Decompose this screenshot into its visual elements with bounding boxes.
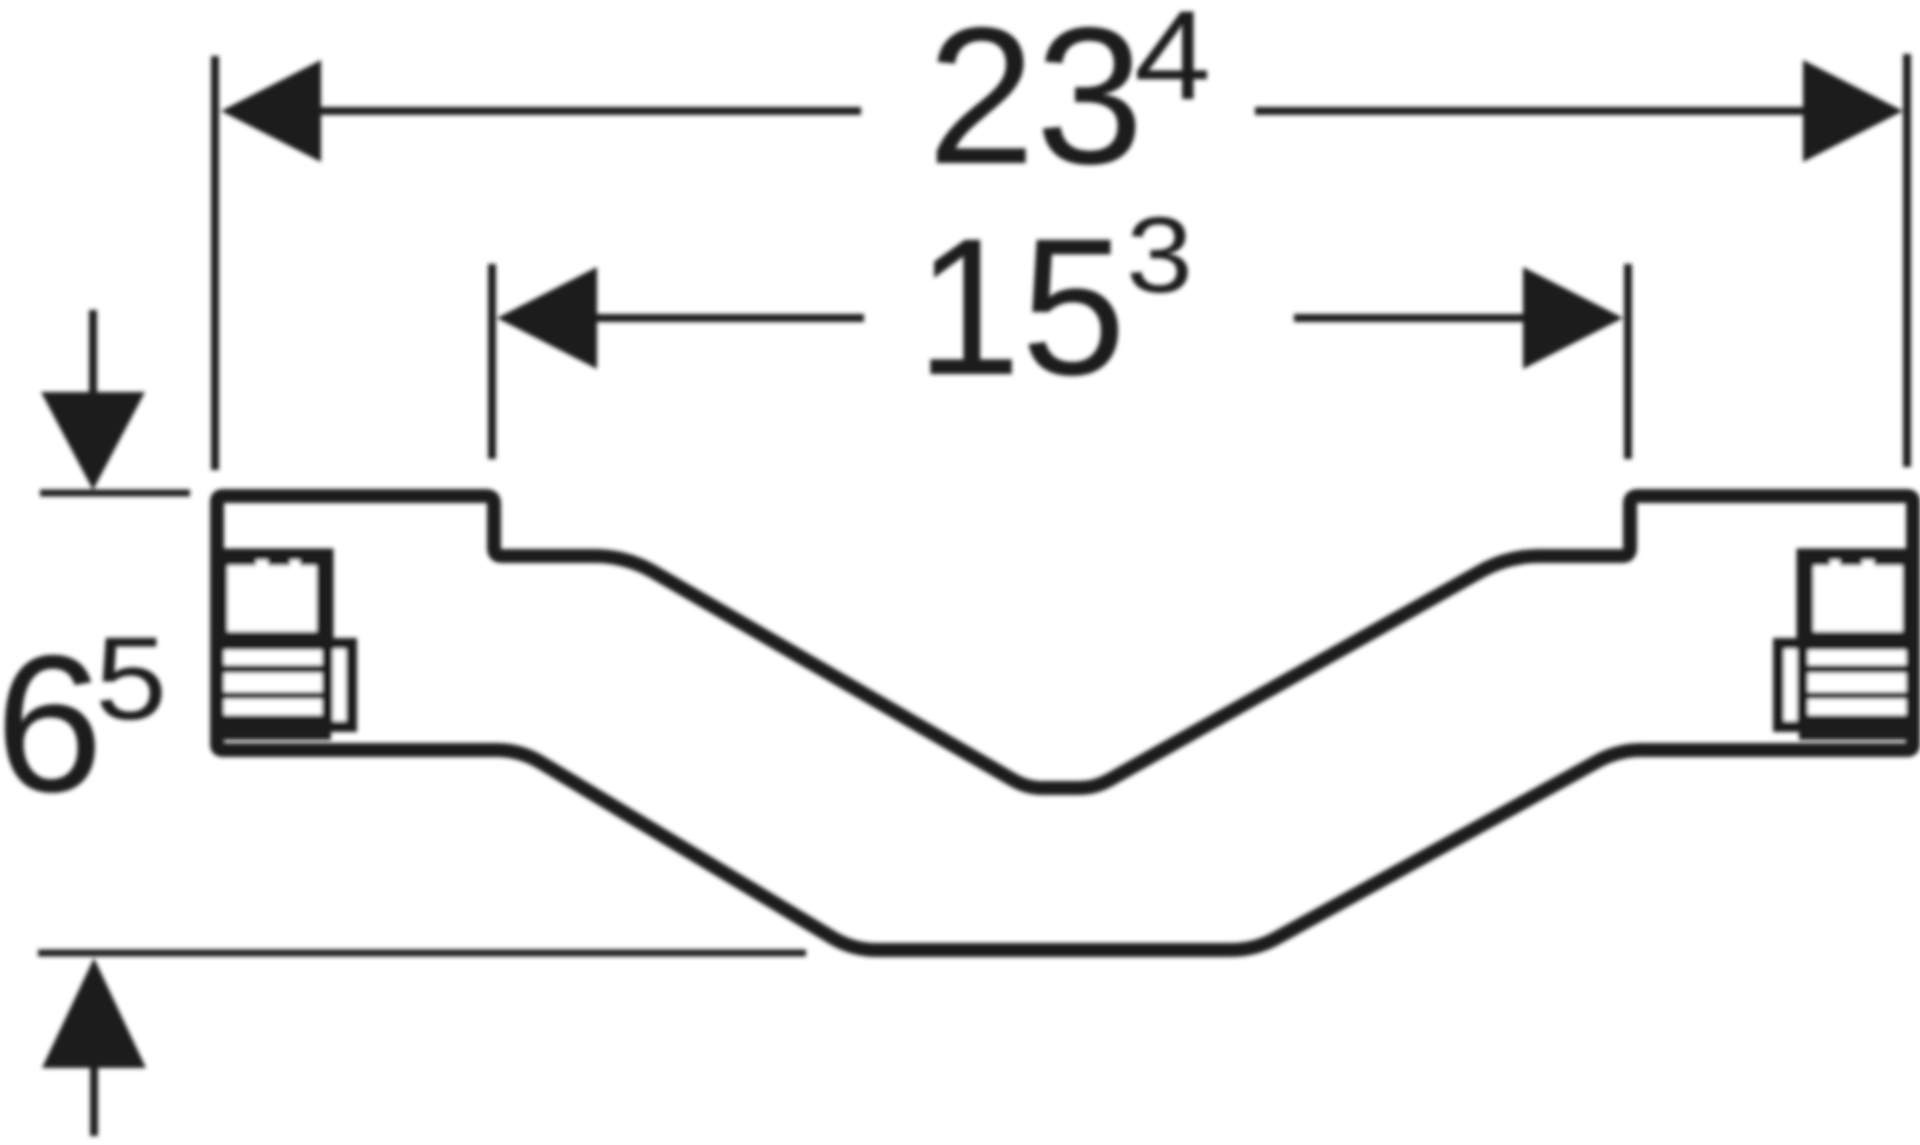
svg-text:23: 23 — [927, 0, 1144, 205]
svg-text:15: 15 — [916, 198, 1126, 416]
dimension 6-5: down arrowhead — [41, 392, 145, 490]
dimension 15-3: dimension line left segment — [594, 314, 864, 322]
dimension 6-5: top reference tick — [40, 490, 190, 497]
svg-text:4: 4 — [1134, 0, 1211, 126]
right fitting ribbed press end — [1799, 640, 1918, 740]
right fitting thread notches — [1862, 560, 1874, 572]
dimension 23-4: dimension line left segment — [318, 107, 861, 115]
dimension 6-5: up arrow stem — [90, 1068, 98, 1136]
dimension 15-3: right arrowhead — [1523, 267, 1623, 369]
right fitting (mirrored) — [1779, 557, 1919, 740]
dimension 23-4: left arrowhead — [221, 60, 321, 162]
dimension 15-3: dimension line right segment — [1294, 314, 1527, 322]
dimension 15-3: left extension line — [488, 264, 496, 459]
left fitting thread socket box — [219, 557, 325, 640]
right fitting end cap — [1779, 644, 1803, 727]
left fitting thread notches — [256, 560, 268, 572]
svg-text:5: 5 — [95, 613, 167, 745]
left fitting ribbed press end — [212, 640, 331, 740]
dimension 15-3: left arrowhead — [497, 267, 597, 369]
dimension 23-4: dimension line right segment — [1255, 107, 1806, 115]
bracket body outline — [217, 496, 1913, 950]
dimension 23-4: right extension line — [1903, 54, 1911, 467]
dimension 15-3: right extension line — [1624, 264, 1632, 459]
svg-text:6: 6 — [0, 615, 103, 833]
svg-text:3: 3 — [1126, 194, 1193, 315]
dimension 23-4: left extension line — [211, 56, 219, 470]
dimension 6-5: bottom reference line — [38, 950, 806, 957]
left fitting end cap — [328, 644, 352, 727]
right fitting thread socket box — [1805, 557, 1911, 640]
dimension 23-4: right arrowhead — [1803, 60, 1903, 162]
dimension 6-5: down arrow stem — [89, 310, 97, 398]
dimension 6-5: up arrowhead — [42, 958, 146, 1068]
